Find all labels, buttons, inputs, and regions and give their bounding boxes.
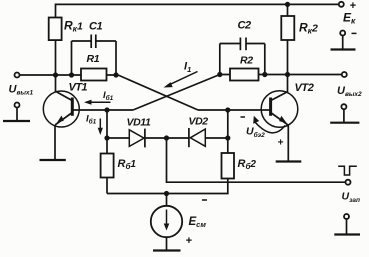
terminal Ek minus	[340, 31, 356, 36]
label Uvyh2	[337, 85, 362, 98]
junction Esm rail	[164, 191, 169, 196]
junction diode row left	[104, 135, 109, 140]
svg-text:R2: R2	[240, 55, 253, 67]
label VT1	[69, 82, 88, 94]
label Ib1 lower	[86, 114, 97, 126]
label Rk1	[64, 19, 83, 34]
label R2	[240, 55, 253, 67]
source Esm	[151, 194, 182, 251]
resistor Rk1	[49, 18, 62, 41]
junction collector VT1 node	[53, 72, 58, 77]
label Ube2 plus	[278, 138, 284, 149]
wire C1 left leg	[71, 41, 73, 75]
terminal Uvyh2	[342, 72, 347, 77]
wire C1 right leg	[115, 41, 117, 75]
wire bias rail	[107, 182, 228, 193]
label Uvyh1	[9, 84, 34, 97]
label Rb1	[118, 158, 137, 171]
svg-text:VD11: VD11	[127, 117, 151, 129]
wire Rk1 to collector node	[55, 40, 57, 75]
label Uzap pulse symbol	[338, 166, 357, 175]
junction C2-R2 left	[217, 72, 222, 77]
wire trigger drop from diode midpoint	[167, 138, 347, 182]
label VD11	[127, 117, 151, 129]
ground below Esm	[153, 249, 181, 251]
junction diode row right	[225, 135, 230, 140]
ground Ek minus	[331, 36, 356, 50]
label VT2	[295, 82, 314, 94]
resistor Rb1	[101, 138, 114, 194]
transistor VT2	[261, 91, 298, 128]
current arrow Ib1 into base	[84, 100, 111, 105]
label Esm plus	[186, 235, 193, 247]
capacitor C2	[220, 38, 265, 51]
svg-text:C2: C2	[238, 20, 251, 32]
label Uzap	[342, 191, 361, 205]
resistor R1	[81, 69, 107, 81]
label Ek	[343, 11, 356, 26]
terminal Uvyh1	[15, 73, 20, 78]
terminal common below Uvyh2	[341, 104, 346, 109]
wire collector VT1	[55, 75, 57, 92]
ground VT1 emitter	[40, 159, 66, 161]
arrow Ube2	[253, 116, 285, 133]
ground VT2 emitter	[276, 160, 302, 162]
transistor VT1	[43, 91, 79, 127]
junction C1-R1 left	[69, 72, 74, 77]
current arrow Ib1 down	[98, 119, 103, 136]
junction top rail Rk2	[285, 2, 290, 7]
wire VT2 collector	[287, 75, 289, 93]
wire left node line	[20, 74, 119, 76]
ground below Uzap	[334, 219, 360, 235]
resistor Rb2	[222, 138, 235, 182]
junction C1-R1 right	[113, 72, 118, 77]
label I1	[184, 61, 191, 75]
junction VT2 base node	[225, 107, 230, 112]
wire C2 right leg	[264, 44, 266, 75]
junction VT1 base node	[104, 107, 109, 112]
wire cross-couple B from R2C2 node to VT1 base	[133, 75, 220, 111]
wire VT1 base to diode row	[106, 110, 108, 138]
wire diode row right	[205, 137, 228, 139]
current arrow I1	[164, 72, 198, 88]
svg-text:R1: R1	[87, 53, 100, 65]
svg-text:+: +	[186, 235, 193, 247]
label C1	[89, 21, 103, 33]
wire VT2 emitter down	[287, 125, 289, 161]
junction C2-R2 right	[262, 72, 267, 77]
svg-text:VT2: VT2	[295, 82, 314, 94]
wire VT2 base drop	[227, 110, 229, 138]
label Rb2	[238, 158, 257, 171]
junction collector VT2 node	[285, 72, 290, 77]
label VD2	[189, 116, 209, 128]
ground below Uvyh2	[330, 109, 359, 123]
terminal Uzap	[346, 180, 351, 185]
resistor Rk2	[281, 4, 294, 74]
terminal common below Uzap	[344, 214, 349, 219]
label Ube2 minus	[241, 116, 246, 118]
label Esm minus	[202, 199, 207, 201]
wire right node line	[220, 74, 342, 76]
wire VT1 base run	[80, 109, 134, 111]
diode VD2	[189, 128, 205, 147]
wire top supply rail	[56, 4, 340, 17]
diode VD11	[129, 129, 145, 148]
label Ube2	[246, 126, 265, 140]
wire VT1 emitter down	[54, 125, 56, 160]
wire diode row left	[107, 137, 130, 139]
wire diode row middle	[145, 137, 189, 139]
label Ib1	[103, 90, 114, 102]
junction diode row middle	[164, 135, 169, 140]
svg-text:VT1: VT1	[69, 82, 88, 94]
terminal Ek plus	[339, 0, 357, 12]
ground below Uvyh1	[3, 108, 30, 122]
terminal common below Uvyh1	[15, 103, 20, 108]
resistor R2	[230, 69, 259, 81]
svg-text:VD2: VD2	[189, 116, 209, 128]
label C2	[238, 20, 251, 32]
label Esm	[189, 216, 207, 229]
label R1	[87, 53, 100, 65]
capacitor C1	[72, 35, 117, 49]
wire cross-couple A from R1C1 node to VT2 base	[118, 75, 261, 110]
label Rk2	[299, 21, 318, 36]
svg-text:+: +	[278, 138, 284, 149]
svg-text:C1: C1	[89, 21, 103, 33]
wire C2 left leg	[219, 44, 221, 75]
